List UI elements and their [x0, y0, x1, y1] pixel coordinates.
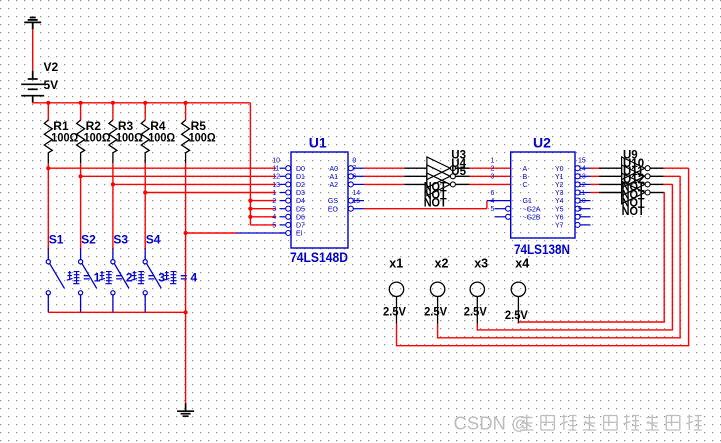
svg-text:6: 6 — [491, 190, 495, 197]
svg-text:U2: U2 — [533, 135, 551, 151]
svg-text:10: 10 — [272, 158, 280, 165]
svg-text:EI: EI — [296, 231, 303, 238]
switch S3 — [112, 248, 114, 259]
wire drop to lamp x1 — [688, 168, 690, 346]
pin U2.Y2 (13) — [575, 182, 580, 187]
wire U2.Y0 to U9 — [591, 167, 600, 169]
svg-text:Y2: Y2 — [555, 182, 564, 189]
svg-text:3: 3 — [272, 206, 276, 213]
ground GND bottom — [177, 403, 194, 416]
svg-text:1: 1 — [272, 190, 276, 197]
svg-text:x3: x3 — [474, 257, 488, 271]
svg-text:NOT: NOT — [622, 206, 645, 218]
pin U1.D1 (11) — [280, 175, 286, 177]
svg-text:14: 14 — [578, 166, 586, 173]
svg-text:Y4: Y4 — [555, 198, 564, 205]
svg-text:D3: D3 — [296, 190, 305, 197]
svg-text:D1: D1 — [296, 174, 305, 181]
svg-text:2.5V: 2.5V — [464, 305, 487, 319]
svg-text:3: 3 — [491, 174, 495, 181]
junction R5/EI tap — [184, 231, 188, 235]
svg-text:S1: S1 — [49, 233, 64, 247]
lamp x3 2.5V — [470, 282, 484, 296]
svg-text:12: 12 — [578, 182, 586, 189]
pin U2.Y3 (12) — [575, 190, 580, 195]
wire U2.Y2 to U11 — [591, 183, 600, 185]
label key = 1 — [67, 271, 80, 284]
svg-text:GS: GS — [328, 198, 338, 205]
wire U12 out — [650, 192, 664, 194]
pin U1.D7 (4) — [280, 224, 286, 226]
battery V2 5V — [21, 71, 44, 103]
svg-text:A2: A2 — [329, 182, 338, 189]
svg-text:13: 13 — [272, 182, 280, 189]
pin U2.Y7 (7) — [575, 222, 580, 227]
wire bus drop right — [249, 103, 251, 225]
svg-text:6: 6 — [352, 174, 356, 181]
svg-text:C: C — [523, 182, 528, 189]
svg-text:2: 2 — [491, 166, 495, 173]
svg-text:12: 12 — [272, 174, 280, 181]
svg-text:7: 7 — [578, 214, 582, 221]
svg-text:V2: V2 — [44, 60, 59, 74]
junction bus — [184, 101, 188, 105]
svg-text:2.5V: 2.5V — [424, 305, 447, 319]
label key = 3 — [131, 271, 144, 284]
svg-text:~G2B: ~G2B — [523, 214, 541, 221]
wire U2.Y3 to U12 — [591, 192, 600, 194]
pin U1.EO (15) — [348, 206, 353, 211]
wire U9 out — [650, 167, 664, 169]
svg-text:5: 5 — [491, 206, 495, 213]
wire U3 out to U2 — [455, 167, 469, 169]
svg-text:100Ω: 100Ω — [51, 131, 78, 145]
svg-text:10: 10 — [578, 198, 586, 205]
svg-text:Y5: Y5 — [555, 206, 564, 213]
svg-text:x1: x1 — [389, 257, 403, 271]
junction R5/switch-bus — [184, 310, 188, 314]
svg-text:1: 1 — [491, 158, 495, 165]
pin U2.~G2B (5) — [495, 216, 506, 218]
not-gate U10 — [622, 165, 645, 188]
svg-text:= 2: = 2 — [116, 271, 133, 285]
svg-text:D0: D0 — [296, 166, 305, 173]
wire column R1 to S1 — [47, 163, 49, 249]
resistor R1 100Ohm — [47, 103, 49, 120]
junction tap — [111, 182, 115, 186]
svg-text:5: 5 — [272, 222, 276, 229]
pin U2.Y4 (11) — [575, 198, 580, 203]
op U2 74LS138N decoder box — [511, 152, 575, 238]
svg-text:11: 11 — [578, 190, 585, 197]
wire U1 A0 to U3 — [364, 167, 404, 169]
svg-text:CSDN @: CSDN @ — [454, 413, 530, 434]
svg-text:Y6: Y6 — [555, 214, 564, 221]
svg-text:2.5V: 2.5V — [383, 305, 406, 319]
svg-text:7: 7 — [352, 166, 356, 173]
svg-text:15: 15 — [352, 198, 360, 205]
svg-text:74LS138N: 74LS138N — [514, 242, 570, 257]
junction — [248, 207, 252, 211]
svg-text:15: 15 — [578, 158, 586, 165]
svg-text:2: 2 — [272, 198, 276, 205]
wire drop to lamp x3 — [671, 184, 673, 330]
pin U2.Y1 (14) — [575, 174, 580, 179]
wire U11 out — [650, 183, 664, 185]
label key = 2 — [99, 271, 112, 284]
svg-text:9: 9 — [578, 206, 582, 213]
wire D3 row — [145, 192, 276, 194]
junction bus — [111, 101, 115, 105]
junction tap — [143, 190, 147, 194]
wire D0 row — [48, 167, 276, 169]
wire D2 row — [113, 183, 276, 185]
svg-text:x2: x2 — [435, 257, 449, 271]
wire U4 out to U2 — [455, 175, 469, 177]
svg-text:A0: A0 — [329, 166, 338, 173]
svg-text:2.5V: 2.5V — [505, 308, 528, 322]
pin U1.A2 (6) — [348, 182, 353, 187]
svg-text:100Ω: 100Ω — [148, 131, 175, 145]
pin U1.D6 (3) — [280, 216, 286, 218]
svg-text:74LS148D: 74LS148D — [290, 250, 348, 265]
wire D5 row — [250, 208, 276, 210]
wire D4 row — [250, 200, 276, 202]
wire column R4 to S4 — [144, 163, 146, 249]
svg-text:4: 4 — [491, 198, 495, 205]
svg-text:NOT: NOT — [424, 198, 447, 210]
op U1 74LS148D encoder box — [291, 152, 348, 248]
svg-text:S4: S4 — [146, 233, 161, 247]
wire D6 row — [250, 216, 276, 218]
lamp x2 2.5V — [430, 282, 444, 296]
wire U1 A1 to U4 — [364, 175, 404, 177]
svg-text:U1: U1 — [309, 135, 327, 151]
svg-text:U12: U12 — [623, 174, 644, 186]
pin U1.A0 (9) — [348, 166, 353, 171]
pin U1.D5 (2) — [280, 208, 286, 210]
not-gate U9 — [622, 157, 645, 180]
svg-text:Y3: Y3 — [555, 190, 564, 197]
pin U1.D2 (12) — [280, 183, 286, 185]
wire column R2 to S2 — [80, 163, 82, 249]
wire column R3 to S3 — [112, 163, 114, 249]
wire U1 A2 to U5 — [364, 183, 404, 185]
svg-text:= 1: = 1 — [83, 271, 100, 285]
wire D7 row — [250, 224, 276, 226]
wire drop to lamp x2 — [679, 176, 681, 337]
svg-text:G1: G1 — [523, 198, 532, 205]
svg-text:A: A — [523, 166, 528, 173]
wire ground to V2 — [32, 29, 34, 71]
junction bus — [46, 101, 50, 105]
not-gate U11 — [622, 173, 645, 196]
svg-text:4: 4 — [272, 214, 276, 221]
svg-text:A1: A1 — [329, 174, 338, 181]
svg-text:S3: S3 — [113, 233, 128, 247]
svg-text:EO: EO — [328, 206, 339, 213]
lamp x1 2.5V — [389, 282, 403, 296]
wire drop to lamp x4 — [663, 193, 665, 323]
junction — [248, 199, 252, 203]
pin U1.EI (5) — [280, 232, 286, 234]
switch S1 — [47, 248, 49, 259]
ground GND top — [24, 18, 41, 30]
wire U2.Y1 to U10 — [591, 175, 600, 177]
resistor R4 100Ohm — [144, 103, 146, 120]
wire column R5 to ground — [185, 163, 187, 403]
switch S2 — [80, 248, 82, 259]
svg-text:100Ω: 100Ω — [84, 131, 111, 145]
svg-text:Y1: Y1 — [555, 174, 564, 181]
junction tap — [79, 174, 83, 178]
switch S4 — [144, 248, 146, 259]
junction tap — [46, 166, 50, 170]
svg-text:U5: U5 — [451, 166, 466, 178]
pin U1.D4 (1) — [280, 200, 286, 202]
not-gate U5 — [427, 173, 450, 196]
not-gate U4 — [427, 165, 450, 188]
wire EI row — [186, 232, 237, 234]
junction bus — [79, 101, 83, 105]
svg-text:D4: D4 — [296, 198, 305, 205]
pin U2.Y5 (10) — [575, 206, 580, 211]
svg-text:= 3: = 3 — [148, 271, 165, 285]
not-gate U12 — [622, 181, 645, 204]
svg-text:S2: S2 — [81, 233, 96, 247]
resistor R5 100Ohm — [185, 103, 187, 120]
svg-text:D6: D6 — [296, 214, 305, 221]
svg-text:100Ω: 100Ω — [116, 131, 143, 145]
svg-text:B: B — [523, 174, 528, 181]
pin U1.D0 (10) — [280, 167, 286, 169]
label key = 4 — [164, 271, 177, 284]
wire top supply bus — [32, 102, 250, 104]
resistor R2 100Ohm — [80, 103, 82, 120]
not-gate U3 — [427, 157, 450, 180]
svg-text:Y0: Y0 — [555, 166, 564, 173]
svg-text:Y7: Y7 — [555, 223, 564, 230]
svg-text:= 4: = 4 — [180, 271, 197, 285]
lamp x4 2.5V — [511, 282, 525, 296]
pin U1.GS (14) — [348, 198, 353, 203]
pin U2.~G2A (4) — [495, 208, 506, 210]
pin U1.A1 (7) — [348, 174, 353, 179]
svg-text:5V: 5V — [44, 78, 59, 92]
svg-text:x4: x4 — [515, 257, 529, 271]
wire D1 row — [81, 175, 277, 177]
pin U1.D3 (13) — [280, 192, 286, 194]
svg-text:14: 14 — [352, 190, 360, 197]
wire U10 out — [650, 175, 664, 177]
resistor R3 100Ohm — [112, 103, 114, 120]
pin U2.Y0 (15) — [575, 166, 580, 171]
svg-text:~G2A: ~G2A — [523, 206, 541, 213]
pin U2.Y6 (9) — [575, 214, 580, 219]
svg-text:13: 13 — [578, 174, 586, 181]
svg-text:D5: D5 — [296, 206, 305, 213]
wire U1.EO to U2.G1 — [364, 208, 487, 210]
junction — [248, 215, 252, 219]
wire switch common bus — [48, 311, 185, 313]
svg-text:100Ω: 100Ω — [189, 131, 216, 145]
junction bus — [143, 101, 147, 105]
svg-text:D7: D7 — [296, 223, 305, 230]
svg-text:9: 9 — [352, 158, 356, 165]
svg-text:11: 11 — [272, 166, 279, 173]
svg-text:D2: D2 — [296, 182, 305, 189]
wire U5 out to U2 — [455, 183, 469, 185]
